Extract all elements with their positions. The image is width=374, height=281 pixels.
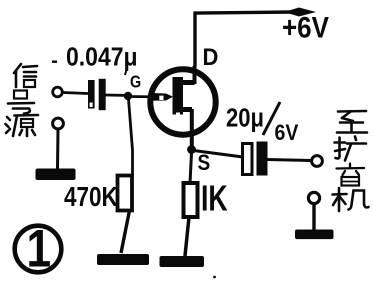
wire R2 to ground bbox=[185, 217, 189, 256]
svg-text:+6V: +6V bbox=[282, 11, 329, 44]
label 信号源 char 源 bbox=[6, 115, 39, 136]
wire terminal to C1 bbox=[63, 93, 88, 94]
tick mark above G bbox=[125, 70, 127, 76]
ground bar output bbox=[295, 230, 334, 240]
svg-text:0.047μ: 0.047μ bbox=[66, 43, 138, 71]
JFET channel bar bbox=[173, 77, 184, 115]
wire drain to +6V rail bbox=[195, 12, 293, 66]
wire R1 to ground bbox=[121, 211, 130, 254]
label 至扩音机 char 音 bbox=[337, 164, 365, 186]
label 信号源 char 号 bbox=[8, 91, 34, 114]
svg-text:S: S bbox=[198, 151, 211, 176]
label 至扩音机 char 至 bbox=[337, 111, 367, 133]
capacitor C2 plate + (hollow) bbox=[243, 144, 253, 175]
svg-text:1: 1 bbox=[27, 220, 52, 279]
output terminal lower bbox=[308, 192, 319, 203]
ground bar under R1 bbox=[97, 254, 149, 265]
gate arrowhead bbox=[151, 93, 173, 101]
wire S node to C2 bbox=[194, 151, 244, 158]
svg-text:IK: IK bbox=[201, 177, 228, 218]
svg-text:G: G bbox=[130, 72, 141, 92]
node S junction bbox=[187, 145, 196, 154]
label 信号源 (signal source) char 信 bbox=[14, 64, 37, 87]
input terminal lower bbox=[53, 118, 64, 129]
source lead bbox=[179, 107, 192, 112]
wire lower output terminal to ground bbox=[312, 204, 315, 230]
resistor R1 470K body bbox=[118, 176, 133, 211]
transistor V1 JFET circle bbox=[150, 69, 215, 134]
wire C2 to output terminal bbox=[268, 160, 312, 161]
figure number circled 1 bbox=[15, 226, 62, 273]
speck bbox=[213, 276, 216, 279]
arrow +6V supply bbox=[289, 8, 316, 17]
ground bar input bbox=[36, 169, 76, 181]
resistor R2 1K body bbox=[184, 183, 198, 217]
ground bar under R2 bbox=[160, 256, 205, 267]
capacitor C1 plate right bbox=[99, 79, 106, 110]
drain lead bbox=[180, 80, 195, 85]
svg-text:20μ: 20μ bbox=[226, 104, 264, 133]
output terminal upper bbox=[312, 156, 323, 167]
wire S node down to R2 bbox=[190, 153, 192, 183]
node G junction bbox=[124, 92, 132, 100]
wire node to gate arrow bbox=[128, 95, 170, 98]
small tick left of 0.047 label bbox=[52, 61, 57, 63]
capacitor C2 plate - (solid) bbox=[257, 142, 268, 176]
wire gate node down to R1 bbox=[129, 99, 133, 176]
capacitor C1 plate left bbox=[88, 80, 95, 109]
wire C1 to gate node bbox=[106, 94, 131, 97]
svg-text:470K: 470K bbox=[64, 182, 118, 213]
svg-text:6V: 6V bbox=[275, 121, 299, 146]
input terminal upper bbox=[53, 87, 63, 97]
svg-text:D: D bbox=[203, 43, 219, 70]
label 至扩音机 char 扩 bbox=[335, 137, 367, 161]
label 至扩音机 char 机 bbox=[333, 188, 369, 211]
wire lower terminal to ground bbox=[56, 130, 60, 170]
